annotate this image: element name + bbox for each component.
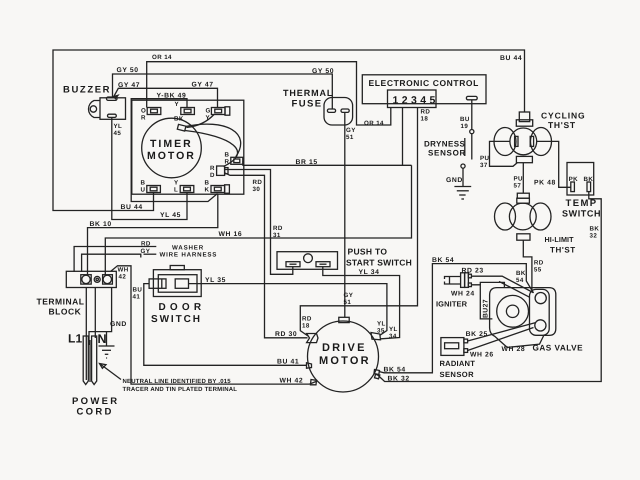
svg-text:G: G [206,108,211,115]
wire YL35: door switch right, down at x=386.9, diagonal to motor right terminal [189,284,387,336]
neutral note arrow [100,364,122,380]
radiant sensor inner slot [445,343,459,349]
hi-limit neck [517,198,530,203]
svg-text:BR 15: BR 15 [296,159,318,166]
svg-text:HI-LIMIT: HI-LIMIT [545,235,575,244]
radiant sensor box [441,338,464,356]
washer harness wire RD stub [74,247,156,273]
timer terminal Y/BK [181,108,195,115]
svg-text:BU 41: BU 41 [277,359,299,366]
svg-text:GY: GY [346,127,356,134]
timer terminal B/R (right side) [231,157,243,164]
hi-limit right wing [530,203,551,230]
svg-text:D: D [210,172,215,179]
svg-text:TH'ST: TH'ST [548,120,576,130]
arrowhead GY47 at buzzer [114,95,118,98]
gas valve bottom terminal circle [535,320,546,331]
svg-text:TEMP: TEMP [566,198,598,209]
svg-text:R: R [141,115,146,122]
wire BK32: temp switch BK down, right, down right side, left along bottom to motor [377,192,601,382]
terminal block box [66,271,116,287]
svg-text:18: 18 [421,116,429,123]
door switch outer box [153,270,201,297]
door switch right terminal [175,279,188,288]
svg-text:RD: RD [273,225,283,232]
svg-text:BK 10: BK 10 [90,221,112,228]
wire RD30: R/D diagonal, down at x=264.5, right to motor [225,173,308,338]
svg-text:DOOR: DOOR [159,302,206,313]
push-to-start switch box [277,252,338,270]
wire gnd from block right terminal down [89,288,112,346]
svg-text:SENSOR: SENSOR [440,370,475,379]
svg-text:B: B [205,180,210,187]
svg-text:BK 32: BK 32 [388,376,410,383]
gas valve inner circle [506,305,518,317]
svg-text:IGNITER: IGNITER [436,300,468,309]
svg-text:BK: BK [174,116,184,123]
push-to-start left slot [286,262,300,267]
cycling thermostat top terminal [519,112,529,122]
timer terminal Y/L [180,186,194,193]
timer decorative curve to R/D [185,131,238,167]
svg-text:GAS VALVE: GAS VALVE [533,344,584,353]
wire control pin4 RD18: down, left at y=305.8, down, diagonal to motor left terminal [300,108,417,337]
gas valve main body [490,288,556,348]
power cord conductor 2 [92,336,97,385]
buzzer body [100,98,126,120]
gas valve right tab [530,289,550,335]
buzzer mounting tab [88,101,100,118]
wire BU27 loop top [480,282,504,287]
hi-limit body circle [509,203,536,230]
igniter bracket [445,277,461,280]
svg-text:GND: GND [110,321,127,328]
svg-text:SWITCH: SWITCH [151,314,202,325]
svg-text:TRACER AND TIN PLATED TERMINAL: TRACER AND TIN PLATED TERMINAL [123,386,238,393]
radiant sensor bottom pin [464,349,468,353]
door switch inner box [158,275,197,293]
svg-text:YL: YL [389,326,398,333]
svg-text:WH 26: WH 26 [470,352,494,359]
svg-text:YL: YL [377,321,386,328]
terminal block left terminal [81,275,91,284]
svg-text:RD: RD [534,260,544,267]
svg-text:L1: L1 [68,332,83,346]
svg-text:FUSE: FUSE [292,99,323,110]
svg-text:NEUTRAL LINE IDENTIFIED BY .01: NEUTRAL LINE IDENTIFIED BY .015 [123,378,232,385]
svg-text:18: 18 [302,323,310,330]
svg-text:PK 48: PK 48 [534,180,556,187]
svg-text:TIMER: TIMER [150,138,193,150]
svg-text:PU: PU [480,155,490,162]
svg-text:K: K [205,187,210,194]
motor bottom-right terminal BK54 [374,370,380,375]
ground symbol (dryness) [454,187,471,200]
wire BK10: timer B/K down, left at y=227.6, down to terminal block [88,194,218,277]
wire BU41: door switch left terminal, left, down at x=143.8, right along y=365.3 to motor [144,284,307,366]
svg-text:RD 30: RD 30 [275,331,297,338]
drive motor circle [308,321,379,392]
cycling thermostat body circle [510,128,537,155]
hi-limit top terminal [517,193,529,198]
terminal block right terminal [103,275,113,284]
timer terminal B/K with extra tab [211,185,229,193]
svg-text:51: 51 [344,299,352,306]
wire GY50: buzzer top terminal up, right, down into thermal fuse left slot [113,74,333,109]
svg-text:L: L [174,187,178,194]
svg-text:OR 14: OR 14 [152,54,172,61]
hi-limit bottom terminal [517,234,530,240]
buzzer top terminal slot [107,97,118,100]
svg-text:Y: Y [206,115,211,122]
control gnd slot terminal [466,96,477,99]
svg-text:55: 55 [534,267,542,274]
svg-text:GY: GY [141,248,151,255]
svg-text:WH 16: WH 16 [219,231,243,238]
motor bottom-left terminal BU41 [307,363,312,368]
temp switch box [567,163,594,196]
svg-text:Y: Y [175,101,180,108]
wire control pin2 down to BR15 [402,108,404,166]
svg-text:R: R [225,159,230,166]
svg-text:BK 25: BK 25 [466,331,488,338]
door switch left terminal [149,279,166,288]
svg-text:CORD: CORD [77,407,114,418]
svg-text:PUSH TO: PUSH TO [348,247,388,257]
thermal fuse right slot [341,109,349,112]
svg-text:30: 30 [253,186,261,193]
svg-text:THERMAL: THERMAL [283,88,333,98]
motor bottom-right terminal BK32 [375,375,380,379]
wire WH16: control pin3 down, left at y=238, down to terminal block right terminal [105,165,411,276]
timer decorative curve to B/R [186,124,241,157]
svg-text:BUZZER: BUZZER [63,85,111,96]
svg-text:37: 37 [480,162,488,169]
svg-text:BLOCK: BLOCK [49,307,82,317]
svg-text:B: B [141,180,146,187]
svg-text:OR 14: OR 14 [364,120,384,127]
dryness sensor wire upper with connector circle [471,100,473,130]
wire RD to push-start: R/D right, down at x=270.5 [225,170,293,275]
terminal block middle terminal [94,276,100,282]
svg-text:45: 45 [114,130,122,137]
wire RD55: hi-limit bottom down, jog right, down to gas valve top circle [523,240,532,290]
svg-text:RD: RD [253,179,263,186]
svg-text:RADIANT: RADIANT [440,359,476,368]
wire L1 from block left terminal down to power cord [85,288,87,381]
wire WH26: radiant sensor bottom pin diagonal to valve [468,328,534,351]
wire YL45: buzzer bottom down, right along y=219.5, up to timer Y/L [112,118,187,220]
timer terminal B/U [147,186,161,193]
svg-text:WH 42: WH 42 [280,378,304,385]
motor right terminal [371,333,381,340]
timer terminal G/Y with extra tab [211,107,229,115]
svg-text:YL 35: YL 35 [205,277,226,284]
electronic control box [362,75,486,104]
svg-text:Y: Y [174,180,179,187]
timer outer box [132,100,244,194]
wire YL34: push-start right terminal down, right along y=275.5, down, diagonal to motor [323,267,400,339]
svg-text:SWITCH: SWITCH [562,209,601,219]
motor left terminal [307,334,318,343]
timer terminal O/R [147,108,161,115]
wire BR15: timer B/R right to control pin3 column [243,161,412,165]
igniter connector body [461,273,465,288]
svg-text:WH 24: WH 24 [451,291,475,298]
svg-text:POWER: POWER [72,396,119,407]
gas valve big circle [497,295,529,327]
temp switch BK slot [587,182,591,192]
timer motor circle [142,118,202,178]
svg-text:ELECTRONIC CONTROL: ELECTRONIC CONTROL [369,78,479,88]
svg-text:RD 23: RD 23 [462,268,484,275]
door switch top bump [170,266,184,270]
cycling thermostat inner slots [515,136,518,146]
wire BK54: motor right, up at x=432.4, right along y=263.6, down diagonal into valve [379,264,534,373]
igniter pin WH24 [468,283,471,287]
hi-limit left wing [495,203,516,230]
wire OR14: control pin1 jog left-up, along y=61.7, down to timer O/R [147,62,391,125]
thermal fuse left slot [327,109,335,112]
svg-text:R: R [210,165,215,172]
wire WH42: terminal block right terminal diagonal up, right, down at x=131, right along y=384.1 to motor [111,266,317,384]
svg-text:GY 50: GY 50 [117,67,139,74]
svg-text:GY 50: GY 50 [312,68,334,75]
svg-text:O: O [141,108,146,115]
wire N from block middle terminal down to power cord [94,288,96,339]
svg-text:YL 45: YL 45 [160,212,181,219]
svg-text:BU: BU [133,287,143,294]
cycling thermostat left wing [494,128,516,156]
wire Y-BK49 jumper: timer Y/BK up, left, down, right along y=201.5, diagonal to B/K [131,99,217,202]
push-to-start circle [304,254,313,263]
wire PU37 loop on cycling left [490,141,518,166]
svg-text:MOTOR: MOTOR [147,150,196,162]
svg-text:B: B [225,152,230,159]
svg-text:BK: BK [516,270,526,277]
svg-text:WIRE HARNESS: WIRE HARNESS [160,252,218,259]
svg-text:DRYNESS: DRYNESS [424,140,465,149]
dryness sensor lower connector circle and wire [461,164,465,168]
ground symbol (power) [99,346,115,358]
dryness sensor pointer tick [464,138,466,156]
cycling thermostat right wing [531,128,552,156]
svg-text:57: 57 [514,183,522,190]
svg-text:BU27: BU27 [483,299,490,318]
gas valve top terminal circle [535,293,546,304]
svg-text:START SWITCH: START SWITCH [346,258,412,268]
svg-text:32: 32 [590,233,598,240]
svg-text:BU: BU [460,116,470,123]
svg-text:41: 41 [133,294,141,301]
svg-text:GY 47: GY 47 [192,82,214,89]
wire RD23: igniter top pin right then diagonal to valve top terminal [471,276,533,292]
svg-text:RD: RD [302,316,312,323]
cycling thermostat bottom terminal [516,156,532,162]
wire parallel diagonal into valve [499,281,530,297]
motor top terminal [339,317,349,322]
svg-text:Y-BK 49: Y-BK 49 [157,93,187,100]
svg-text:BU 44: BU 44 [500,55,522,62]
igniter pin RD23 [468,274,471,278]
svg-text:51: 51 [346,134,354,141]
svg-text:U: U [141,187,146,194]
svg-text:RD: RD [421,109,431,116]
thermal fuse body [324,98,353,126]
power cord conductor 1 [83,336,88,385]
washer harness wire GY stub [82,254,141,272]
timer decorative curve to G/Y [187,115,215,128]
svg-text:DRIVE: DRIVE [322,342,367,354]
radiant sensor top pin [464,339,468,343]
wire PU57: cycling bottom to hi-limit top [522,163,524,194]
svg-text:BU 44: BU 44 [121,204,143,211]
svg-text:WASHER: WASHER [172,245,204,252]
svg-text:TH'ST: TH'ST [550,246,576,255]
timer circle stub terminal [177,124,186,131]
svg-text:19: 19 [461,123,469,130]
svg-text:YL: YL [114,123,123,130]
svg-text:SENSOR: SENSOR [428,149,466,158]
wire BU44 frame loop: timer B/U down, left, up left side, along top, down to cycling [53,50,525,211]
svg-text:WH 28: WH 28 [502,346,526,353]
svg-text:RD: RD [141,241,151,248]
motor bottom-left terminal WH42 [311,380,317,385]
svg-text:GY: GY [344,292,354,299]
svg-text:GND: GND [446,177,463,184]
wire BK25: radiant sensor top pin diagonal to valve bottom circle [468,323,536,342]
wire GY47: arrow to buzzer, along y=88.3, down to timer G/Y [114,88,218,107]
svg-text:42: 42 [119,274,127,281]
svg-text:12345: 12345 [393,95,439,107]
timer terminal R/D (right side, inner) [217,166,228,175]
svg-text:WH: WH [118,267,129,274]
temp switch PK slot [571,182,575,192]
svg-text:BK: BK [590,226,600,233]
svg-text:BK 54: BK 54 [384,367,406,374]
wire WH24/BU27 loop: igniter bottom pin right, down, right into valve [471,285,492,319]
svg-text:GY 47: GY 47 [118,82,140,89]
buzzer mounting hole [90,106,96,112]
push-to-start right slot [316,262,330,267]
wire PK48: cycling right side to temp switch PK slot [537,141,571,187]
svg-text:YL 34: YL 34 [359,269,380,276]
power cord sheath lines [89,340,91,382]
svg-text:54: 54 [516,277,524,284]
svg-text:MOTOR: MOTOR [319,355,371,367]
wire GY51: fuse right slot down to drive motor top terminal [344,113,346,318]
svg-text:N: N [98,332,107,346]
electronic control inner pin box 1 2 3 4 5 [388,90,437,108]
svg-text:CYCLING: CYCLING [541,111,586,121]
svg-text:34: 34 [389,333,397,340]
svg-text:BK 54: BK 54 [432,257,454,264]
buzzer bottom terminal slot [108,114,117,117]
svg-text:PU: PU [514,176,524,183]
svg-text:TERMINAL: TERMINAL [37,297,85,307]
